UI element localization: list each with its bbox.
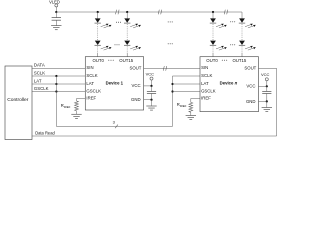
bus width marker: slash and label 3 [113, 120, 118, 129]
ground: R(IREF) for Device n [186, 116, 196, 120]
pin OUT15 (Device 1) [119, 58, 133, 63]
wire: dotted continuation to output pin, string 4 [241, 47, 243, 57]
wire: VLED rail drop to LED string 1 (Device 1 OUT0) [97, 11, 99, 19]
svg-text:SOUT: SOUT [129, 66, 141, 71]
wire: VLED rail drop to LED string 2 (Device 1 OUT15) [126, 11, 128, 19]
svg-text:SCLK: SCLK [34, 70, 45, 75]
svg-text:DATA: DATA [34, 63, 45, 68]
wire: bus to Device n SCLK [173, 75, 201, 77]
pin OUT15 (Device n) [232, 58, 246, 63]
wire: dotted series continuation, string 4 [241, 24, 243, 40]
VCC supply terminal for Device 1 [146, 71, 155, 86]
controller box [5, 66, 32, 140]
break symbol: rail between OUT0 and OUT15 strings (Device 1) [116, 10, 120, 15]
svg-text:LAT: LAT [201, 81, 209, 86]
wire: dotted series continuation, string 1 [97, 24, 99, 40]
wire: Data Read return to controller [32, 131, 277, 137]
svg-text:GND: GND [246, 99, 256, 104]
svg-text:Device n: Device n [220, 80, 238, 85]
op-amp U2: LED driver Device n box [200, 57, 259, 112]
wire: VCC pin stub for Device 1 [144, 85, 153, 87]
capacitor: VLED bypass [52, 12, 61, 26]
resistor R(IREF) for Device 1 [61, 99, 86, 115]
pin IREF (Device 1) [86, 95, 96, 100]
VLED supply terminal [49, 0, 60, 12]
wire: GND pin stub for Device n [259, 100, 268, 102]
wire: VCC pin stub for Device n [259, 85, 268, 87]
wire: dotted continuation to output pin, string 2 [126, 47, 128, 57]
wire: 3-signal bus riser to Device n [172, 76, 174, 126]
svg-text:VCC: VCC [132, 83, 141, 88]
svg-text:LAT: LAT [34, 78, 42, 83]
LED string 3 bottom LED (Device n OUT0) [210, 41, 227, 51]
svg-text:SCLK: SCLK [201, 73, 212, 78]
LED string 1 bottom LED (Device 1 OUT0) [95, 41, 112, 51]
pin SCLK (Device n) [201, 73, 212, 78]
wire: LAT (controller to Device 1 LAT) [32, 78, 85, 84]
svg-text:Data Read: Data Read [35, 131, 55, 136]
pin IREF (Device n) [201, 95, 211, 100]
wire: dotted series continuation, string 2 [126, 24, 128, 40]
pin VCC (Device 1) [132, 83, 141, 88]
pin LAT (Device 1) [86, 81, 94, 86]
pin OUT0 (Device n) [206, 58, 218, 63]
pin GSCLK (Device 1) [86, 88, 101, 93]
break symbol: rail between Device 1 and Device n strings [158, 10, 162, 15]
pin SIN (Device 1) [86, 65, 93, 70]
node: GSCLK bus tap [55, 90, 57, 92]
svg-text:OUT15: OUT15 [119, 58, 133, 63]
svg-text:IREF: IREF [86, 95, 96, 100]
wire: Device 1 SOUT to Device n SIN [144, 67, 200, 69]
svg-text:Controller: Controller [7, 97, 29, 103]
pin OUT0 (Device 1) [92, 58, 104, 63]
pin LAT (Device n) [201, 81, 209, 86]
svg-text:RIREF: RIREF [61, 103, 71, 109]
LED string 3 top LED (Device n OUT0) [210, 18, 227, 28]
wire: dotted continuation to output pin, string 1 [97, 47, 99, 57]
ground: R(IREF) for Device 1 [71, 114, 81, 118]
svg-text:VCC: VCC [246, 83, 255, 88]
svg-text:GSCLK: GSCLK [34, 86, 49, 91]
pin SOUT (Device 1) [129, 66, 141, 71]
wire: bus to Device n LAT [173, 83, 201, 85]
node: SCLK bus tap [55, 75, 57, 77]
ground: VCC bypass for Device n [262, 108, 272, 112]
svg-text:SCLK: SCLK [86, 73, 97, 78]
break symbol: SOUT-SIN chain (more devices) [163, 66, 167, 71]
wire: bus to Device n GSCLK [173, 91, 201, 93]
ground: VCC bypass for Device 1 [146, 106, 156, 110]
svg-text:VCC: VCC [146, 71, 155, 76]
svg-text:GSCLK: GSCLK [201, 88, 216, 93]
svg-text:OUT0: OUT0 [92, 58, 104, 63]
svg-text:Device 1: Device 1 [106, 80, 124, 85]
pin VCC (Device n) [246, 83, 255, 88]
node: LAT bus tap [55, 83, 57, 85]
op-amp U1: LED driver Device 1 box [85, 57, 143, 110]
wire: dotted series continuation, string 3 [212, 24, 214, 40]
LED string 4 top LED (Device n OUT15) [239, 18, 256, 28]
wire: dotted continuation to output pin, string 3 [212, 47, 214, 57]
pin SIN (Device n) [201, 65, 208, 70]
capacitor: VCC bypass for Device n [262, 86, 271, 101]
svg-text:OUT15: OUT15 [232, 58, 246, 63]
wire: Device n SOUT to right edge [259, 67, 277, 69]
svg-text:VLED: VLED [49, 0, 60, 5]
LED string 1 top LED (Device 1 OUT0) [95, 18, 112, 28]
node: Device n GSCLK tap [171, 90, 173, 92]
pin GND (Device 1) [131, 97, 141, 102]
ellipsis: more LED strings (between devices) [168, 21, 173, 44]
wire: return path down right side [276, 68, 278, 136]
VCC supply terminal for Device n [261, 72, 270, 86]
LED string 4 bottom LED (Device n OUT15) [239, 41, 256, 51]
ellipsis: more LED strings (Device n) [230, 21, 235, 45]
ellipsis: more LED strings (Device 1) [115, 22, 121, 46]
node: VLED rail junction at bypass capacitor [55, 11, 57, 13]
svg-text:SIN: SIN [86, 65, 93, 70]
wire: 3-signal bus down from controller taps [55, 76, 57, 126]
break symbol: rail between OUT0 and OUT15 strings (Device n) [224, 10, 228, 15]
wire: GSCLK (controller to Device 1 GSCLK) [32, 86, 85, 92]
wire: 3-signal bus bottom run [56, 125, 172, 127]
pin GND (Device n) [246, 99, 256, 104]
svg-text:GSCLK: GSCLK [86, 88, 101, 93]
LED string 2 top LED (Device 1 OUT15) [124, 18, 141, 28]
wire: GND drop for Device n [266, 101, 268, 107]
LED string 2 bottom LED (Device 1 OUT15) [124, 41, 141, 51]
wire: VLED rail drop to LED string 3 (Device n OUT0) [212, 11, 214, 19]
node: Device n LAT tap [171, 83, 173, 85]
wire: VLED top rail [56, 11, 242, 13]
svg-text:SOUT: SOUT [244, 66, 256, 71]
pin GSCLK (Device n) [201, 88, 216, 93]
pin SOUT (Device n) [244, 66, 256, 71]
wire: GND drop for Device 1 [151, 100, 153, 106]
svg-text:SIN: SIN [201, 65, 208, 70]
svg-text:VCC: VCC [261, 72, 270, 77]
wire: VLED rail drop to LED string 4 (Device n OUT15) [241, 12, 243, 18]
svg-text:IREF: IREF [201, 95, 211, 100]
resistor R(IREF) for Device n [177, 99, 200, 116]
svg-text:LAT: LAT [86, 81, 94, 86]
ground: VLED bypass capacitor [51, 26, 61, 30]
wire: DATA (controller to Device 1 SIN) [32, 63, 85, 69]
pin SCLK (Device 1) [86, 73, 97, 78]
ellipsis: OUT pins Device 1 [108, 59, 113, 62]
capacitor: VCC bypass for Device 1 [147, 86, 156, 100]
svg-text:RIREF: RIREF [177, 102, 187, 108]
svg-text:OUT0: OUT0 [206, 58, 218, 63]
svg-text:GND: GND [131, 97, 141, 102]
wire: GND pin stub for Device 1 [144, 99, 153, 101]
wire: SCLK (controller to Device 1 SCLK) [32, 70, 85, 76]
ellipsis: OUT pins Device n [222, 59, 227, 62]
